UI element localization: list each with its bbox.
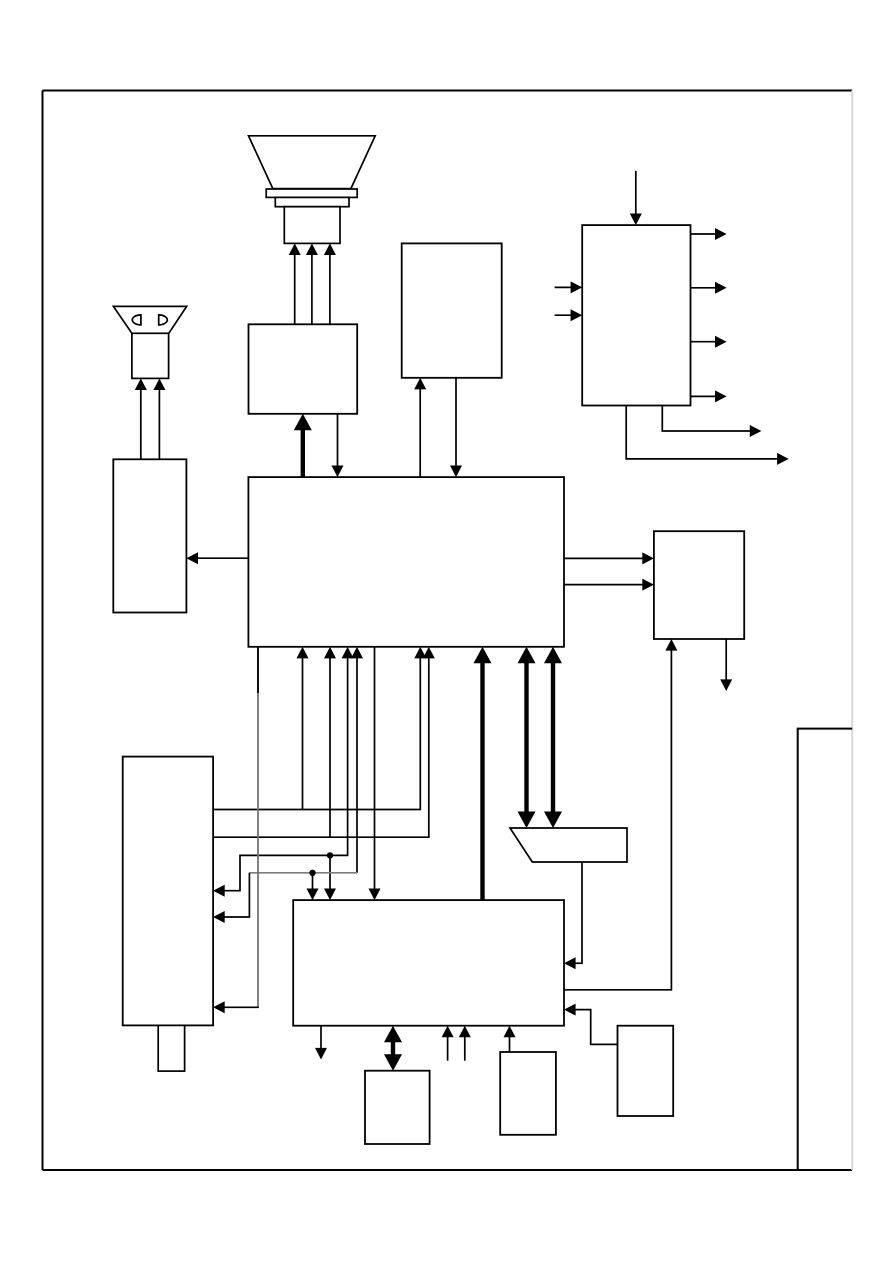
horn loudspeaker xyxy=(249,136,376,244)
box G xyxy=(123,757,213,1026)
stub arrow up into H 2 xyxy=(459,1026,471,1061)
wire K to H zigzag xyxy=(564,1004,618,1045)
small speaker xyxy=(113,306,186,378)
arrow E to F 1 xyxy=(564,552,654,564)
amplifier box A xyxy=(249,324,358,414)
wire E to G via row3 xyxy=(213,647,354,897)
latch trapezoid xyxy=(510,828,627,862)
wire G row2 to E xyxy=(213,647,435,837)
thick double arrow H and I xyxy=(384,1026,402,1071)
arrow E to F 2 xyxy=(564,579,654,591)
wire amp to horn 3 xyxy=(324,243,336,324)
speaker terminal mark left xyxy=(132,315,141,325)
arrow out of C right 3 xyxy=(691,336,727,348)
arrow J up to H xyxy=(504,1026,516,1052)
box D xyxy=(113,459,186,612)
figure border frame xyxy=(43,91,853,1171)
wire out of C bottom right jog xyxy=(662,406,761,438)
box K xyxy=(618,1026,674,1116)
box L right narrow xyxy=(798,729,853,1170)
thick arrow E up to amplifier A xyxy=(294,414,312,477)
wire G row1 to E xyxy=(213,647,426,810)
wire G row1 branch up to E xyxy=(297,647,309,810)
arrow down from H bottom xyxy=(315,1026,327,1060)
junction dot gray net xyxy=(309,870,315,876)
box I xyxy=(365,1071,430,1144)
branch down to H top xyxy=(307,873,319,900)
junction dot row3 xyxy=(327,852,333,858)
box F xyxy=(654,531,744,639)
arrow E up to B xyxy=(414,378,426,477)
box C xyxy=(582,225,690,405)
main box E xyxy=(248,477,564,647)
box J xyxy=(500,1052,556,1135)
wire amp to horn 2 xyxy=(306,243,318,324)
stub arrow up into H 1 xyxy=(442,1026,454,1061)
arrow out of C right 1 xyxy=(691,228,727,240)
wire box D to speaker 1 xyxy=(135,378,147,459)
wire box D to speaker 2 xyxy=(153,378,165,459)
arrow A down to E xyxy=(332,414,344,477)
thick arrow H up to E xyxy=(474,647,492,900)
wire E down to H plain xyxy=(369,647,381,900)
branch row3 down to H top xyxy=(324,855,336,900)
wire latch to H right xyxy=(564,862,582,969)
arrow into C left 1 xyxy=(555,281,583,293)
arrow E to D xyxy=(186,552,248,564)
box G foot xyxy=(158,1025,184,1071)
wire E to G left gray xyxy=(213,647,258,1014)
speaker terminal mark right xyxy=(159,315,168,325)
arrow into C top xyxy=(630,171,642,225)
box H xyxy=(293,900,564,1026)
arrow down from F bottom xyxy=(720,639,732,691)
arrow B down to E xyxy=(450,378,462,477)
box B xyxy=(402,243,502,377)
arrow out of C right 2 xyxy=(691,282,727,294)
wire H right to F bottom xyxy=(564,639,677,990)
wire E to G and H gray net xyxy=(213,647,363,923)
arrow into C left 2 xyxy=(555,309,583,321)
thick double arrow E and latch 2 xyxy=(544,647,562,828)
thick double arrow E and latch 1 xyxy=(518,647,536,828)
wire E down to row2 xyxy=(324,647,336,837)
wire amp to horn 1 xyxy=(289,243,301,324)
arrow out of C right 4 xyxy=(691,390,727,402)
wire out of C bottom left jog xyxy=(626,406,789,465)
